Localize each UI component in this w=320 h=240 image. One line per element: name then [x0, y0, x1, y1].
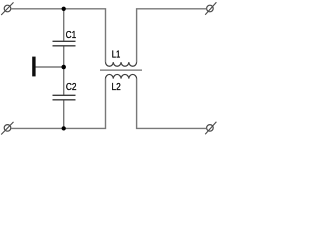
capacitor C1 [53, 41, 76, 46]
wire bar to mid node [35, 66, 63, 68]
wire C2 bottom stub [63, 100, 65, 129]
svg-text:L1: L1 [112, 49, 121, 60]
wire C1 top stub [63, 9, 65, 42]
transformer core [100, 69, 142, 71]
junction mid [61, 65, 65, 70]
inductor L1 [106, 62, 137, 66]
svg-text:C1: C1 [66, 30, 77, 41]
terminal TL [1, 2, 13, 15]
ground bar electrode [32, 57, 35, 77]
terminal BL [1, 122, 13, 135]
wire top-left net [11, 9, 106, 62]
terminal TR [205, 2, 216, 15]
junction top [62, 7, 66, 11]
terminal BR [205, 122, 216, 135]
wire bottom-left net [11, 79, 106, 129]
junction bottom [62, 126, 66, 130]
svg-text:L2: L2 [112, 82, 122, 93]
capacitor C2 [53, 95, 76, 100]
wire top-right net [137, 9, 207, 62]
svg-text:C2: C2 [66, 82, 77, 93]
wire C1-C2 middle stub [63, 46, 65, 96]
wire bottom-right net [137, 79, 207, 129]
inductor L2 [106, 74, 137, 78]
